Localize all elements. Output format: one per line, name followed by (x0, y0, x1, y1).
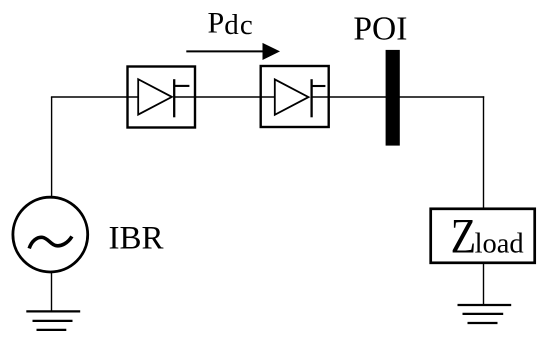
ground (right, under Zload) (458, 305, 512, 323)
wire: corner to converter 1 (horizontal, y=97) (51, 96, 139, 98)
wire: Zload bottom to right ground (483, 263, 485, 305)
label Zload (451, 208, 524, 263)
wire: source top to corner (vertical, left) (51, 97, 53, 198)
converter U2 valve symbol (triangle, bar, gate tick) (275, 79, 326, 117)
wire: converter 1 to converter 2 (horizontal, y=97) (174, 96, 275, 98)
wire: right corner down to Zload box (vertical) (483, 96, 485, 209)
converter U1 box (128, 67, 196, 128)
wire: converter 2 through POI bus to right corner (horizontal, y=97) (312, 96, 485, 98)
converter U2 box (261, 66, 329, 127)
svg-text:Pdc: Pdc (208, 6, 254, 41)
svg-text:IBR: IBR (109, 220, 164, 256)
ground (left, under IBR source) (26, 311, 80, 330)
svg-text:Z: Z (451, 208, 477, 263)
arrow: dc power flow (left to right) (186, 43, 280, 60)
load Zload box (431, 209, 535, 263)
svg-text:POI: POI (353, 11, 407, 48)
converter U1 valve symbol (triangle, bar, gate tick) (138, 79, 189, 117)
wire: source bottom to left ground (51, 271, 53, 311)
svg-text:load: load (475, 229, 524, 260)
source IBR (AC source circle with sine) (13, 197, 88, 272)
POI bus bar (386, 50, 400, 146)
